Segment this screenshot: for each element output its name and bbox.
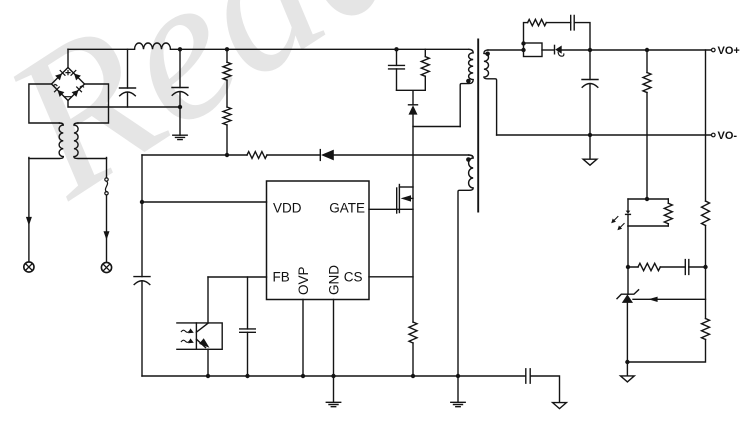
- VO- terminal: [712, 133, 716, 137]
- node: rectified rail / C2 bottom junction: [178, 105, 182, 109]
- svg-text:Read: Read: [0, 0, 447, 240]
- wire right AC vertical lower: [106, 195, 108, 262]
- wire left vertical (VDD node): [141, 155, 143, 376]
- polarity arrow: [26, 217, 32, 226]
- node: ground rail / GND pin junction: [331, 374, 335, 378]
- CM choke right winding: [74, 123, 107, 158]
- node: divider midpoint / comp cap junction: [703, 265, 707, 269]
- node: VDD net junction at C3: [140, 200, 144, 204]
- T2 aux winding: [458, 155, 473, 376]
- wire: [226, 49, 228, 62]
- wire FB pin: [208, 276, 267, 278]
- node: snubber right leg / C8 / VO+ rail junction: [588, 48, 592, 52]
- node: VDD feed / R1-R2 bottom junction: [225, 153, 229, 157]
- svg-text:GND: GND: [326, 265, 341, 295]
- resistor R5 (snubber): [528, 19, 547, 25]
- wire secondary top: [488, 49, 524, 51]
- controller IC U1: [267, 181, 370, 300]
- T2 secondary winding: [484, 50, 497, 135]
- wire clamp bottom: [397, 90, 426, 104]
- opto LED section top bar: [628, 198, 668, 200]
- wire to primary bottom: [413, 115, 460, 127]
- diode D2 (VDD): [320, 150, 334, 161]
- svg-text:VDD: VDD: [273, 200, 302, 215]
- wire CS pin: [369, 276, 413, 278]
- T2 primary phase dot: [466, 79, 471, 84]
- node: TL431 comp network junction: [626, 265, 630, 269]
- svg-text:GATE: GATE: [329, 200, 365, 215]
- wire: [412, 343, 414, 376]
- ground (earth) input filter: [173, 107, 187, 140]
- node (clamp tap): [394, 47, 398, 51]
- resistor R10 (lower divider): [702, 319, 710, 340]
- polarity arrow: [104, 231, 110, 240]
- svg-text:VO-: VO-: [718, 130, 738, 142]
- wire VO- rail: [497, 134, 713, 136]
- T2 primary winding: [460, 49, 473, 126]
- wire: [627, 340, 705, 363]
- node: ground rail / OVP pin junction: [301, 374, 305, 378]
- capacitor C4 (clamp): [389, 49, 405, 90]
- wire Y-cap to chassis: [530, 376, 559, 403]
- IC pin labels: [273, 200, 366, 295]
- snubber leg left: [524, 23, 528, 43]
- primary ground rail: [142, 375, 526, 377]
- wire VDD pin: [142, 201, 267, 203]
- CM choke left winding: [29, 123, 63, 158]
- wire left AC lead: [29, 84, 59, 123]
- inductor L1: [135, 43, 171, 49]
- wire left AC vertical: [28, 158, 30, 262]
- node: top rail / C2 junction: [178, 47, 182, 51]
- capacitor C5 (FB): [240, 277, 256, 376]
- optocoupler U2 phototransistor: [177, 323, 222, 349]
- resistor R4 (clamp): [421, 49, 429, 90]
- wire right AC lead: [78, 84, 109, 123]
- ground (open triangle) output: [583, 135, 597, 165]
- node: opto LED anode junction: [645, 197, 649, 201]
- wire: [689, 266, 706, 268]
- wire snubber right leg: [574, 23, 590, 50]
- node: ground rail / C5 junction: [245, 374, 249, 378]
- transformer T2 core: [477, 40, 479, 212]
- wire drain/source vertical: [412, 127, 414, 323]
- watermark: [0, 0, 447, 240]
- wire bottom (rectified) rail: [68, 101, 180, 108]
- MOSFET Q1: [397, 185, 413, 214]
- capacitor C7 (snubber): [571, 15, 575, 30]
- TL431 U3: [617, 267, 639, 362]
- resistor R11 (parallel with LED): [664, 199, 672, 226]
- ground (earth) aux return: [451, 376, 465, 407]
- node: TL431 anode / ground return junction: [625, 360, 629, 364]
- wire top rail left: [68, 48, 135, 50]
- capacitor C1: [120, 49, 136, 107]
- node: VO+ rail / R8 divider tap: [645, 48, 649, 52]
- node: VO- rail / C8 bottom junction: [588, 133, 592, 137]
- wire LED bottom bar: [628, 225, 668, 227]
- wire: [546, 22, 570, 24]
- resistor R9: [702, 201, 710, 226]
- TL431 ref wire with arrow: [633, 297, 706, 302]
- resistor R12 (comp): [638, 263, 660, 270]
- resistor R8 (upper divider): [643, 73, 651, 93]
- wire opto emitter down: [207, 349, 209, 376]
- resistor R2: [223, 107, 231, 125]
- wire GND pin down: [333, 300, 335, 377]
- wire: [542, 49, 554, 51]
- ground (open triangle) secondary: [621, 362, 635, 382]
- wire VO+ to lower network: [705, 50, 707, 201]
- node: secondary output / rectifier box input junction: [521, 48, 525, 52]
- LED emission arrows: [611, 217, 624, 231]
- wire FB to opto: [207, 277, 209, 323]
- svg-text:OVP: OVP: [296, 266, 311, 295]
- T2 aux phase dot: [466, 157, 471, 162]
- wire VDD feed: [142, 154, 247, 156]
- fuse F1: [105, 178, 108, 195]
- wire: [628, 266, 685, 268]
- capacitor C8 (output): [582, 50, 598, 135]
- capacitor C6 (Y-cap): [526, 369, 530, 383]
- diode D1 (clamp): [409, 105, 418, 115]
- T2 secondary phase dot: [485, 52, 490, 57]
- output rectifier box: [524, 43, 543, 57]
- node: ground rail / sense resistor junction: [411, 374, 415, 378]
- capacitor C2: [172, 49, 188, 107]
- wire: [646, 93, 648, 200]
- wire OVP pin down: [302, 300, 304, 377]
- schottky diode glyph: [555, 45, 564, 56]
- node: ground rail / aux return junction: [456, 374, 460, 378]
- resistor R3: [247, 152, 267, 159]
- wire GATE pin: [369, 208, 413, 210]
- wire to aux winding: [334, 154, 469, 156]
- svg-text:VO+: VO+: [718, 45, 740, 57]
- wire: [267, 154, 320, 156]
- VO+ terminal: [712, 48, 716, 52]
- ground (open triangle) chassis: [553, 403, 567, 409]
- output terminal labels: [718, 45, 740, 142]
- wire right AC vertical upper: [106, 158, 108, 178]
- wire: [646, 50, 648, 73]
- wire: [627, 226, 629, 267]
- AC source terminal N: [101, 262, 111, 272]
- node: top rail / R1 divider tap: [225, 47, 229, 51]
- node: ground rail / opto emitter junction: [206, 374, 210, 378]
- capacitor C10 (comp): [685, 260, 689, 275]
- wire: [226, 80, 228, 107]
- resistor R1: [223, 62, 231, 80]
- wire: [226, 125, 228, 155]
- ground (earth) below GND pin: [326, 376, 340, 407]
- capacitor C3 (VDD): [134, 277, 150, 285]
- wire top rail to transformer: [171, 48, 469, 50]
- light arrows into phototransistor: [181, 328, 194, 343]
- node: snubber leg / rectifier box top-left junction: [521, 41, 525, 45]
- AC source terminal L: [24, 262, 34, 272]
- resistor R7 (current sense): [409, 322, 417, 343]
- bridge rectifier BR1: [52, 68, 85, 101]
- svg-text:FB: FB: [273, 270, 290, 285]
- svg-text:CS: CS: [344, 270, 363, 285]
- wire: [705, 226, 707, 319]
- wire bridge top to rail: [67, 49, 69, 67]
- wire: [562, 49, 713, 51]
- LED of optocoupler U2: [626, 199, 631, 226]
